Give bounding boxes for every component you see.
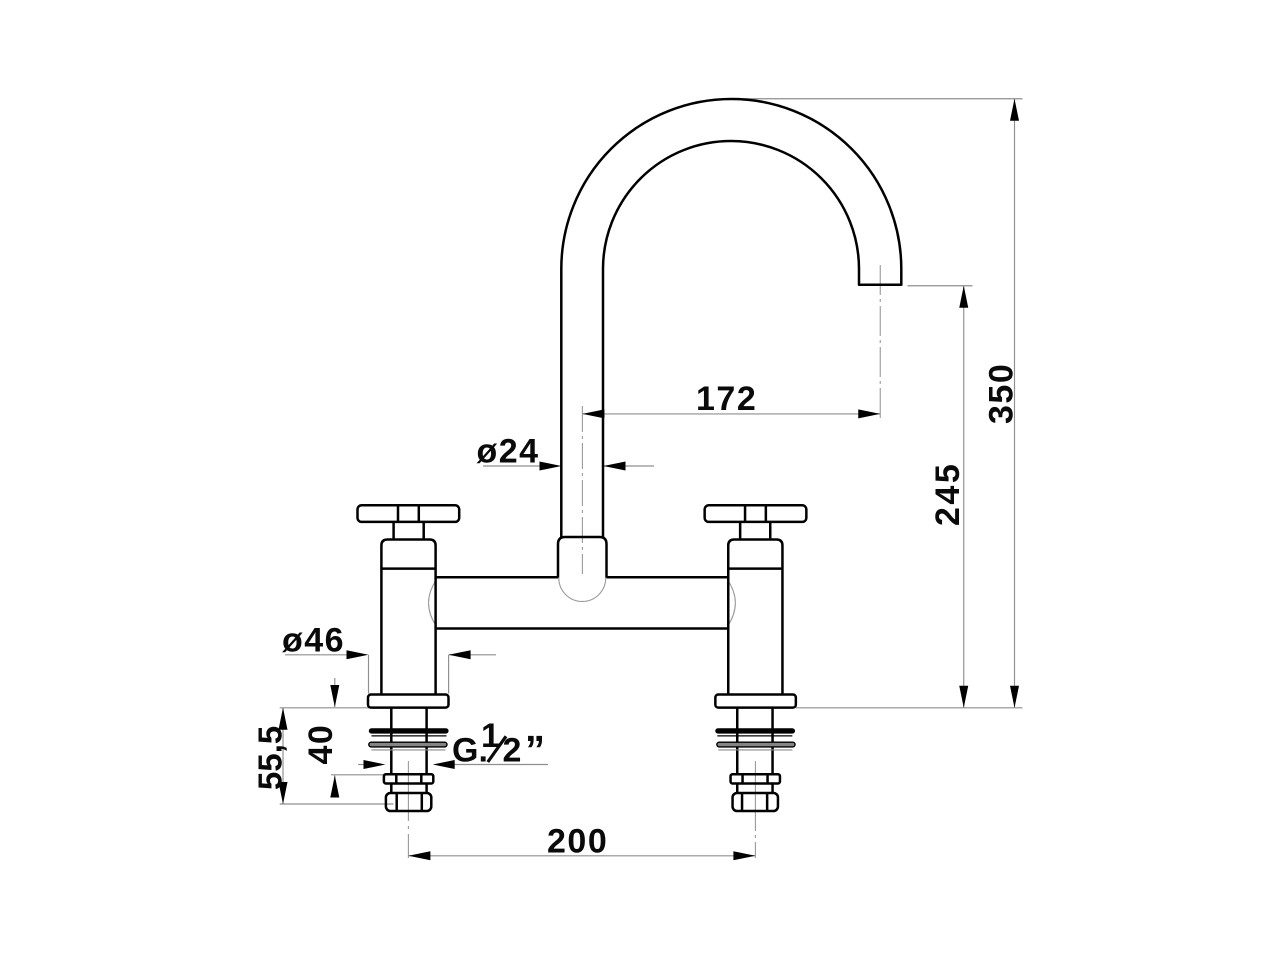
svg-text:ø24: ø24 bbox=[477, 433, 540, 471]
svg-text:350: 350 bbox=[982, 363, 1020, 424]
svg-text:ø46: ø46 bbox=[282, 621, 345, 659]
svg-text:245: 245 bbox=[929, 462, 967, 526]
svg-text:”: ” bbox=[525, 729, 545, 773]
svg-text:55,5: 55,5 bbox=[252, 726, 289, 790]
svg-text:200: 200 bbox=[547, 823, 608, 861]
svg-text:2: 2 bbox=[503, 732, 522, 770]
svg-text:40: 40 bbox=[302, 724, 340, 765]
svg-text:172: 172 bbox=[696, 380, 757, 418]
